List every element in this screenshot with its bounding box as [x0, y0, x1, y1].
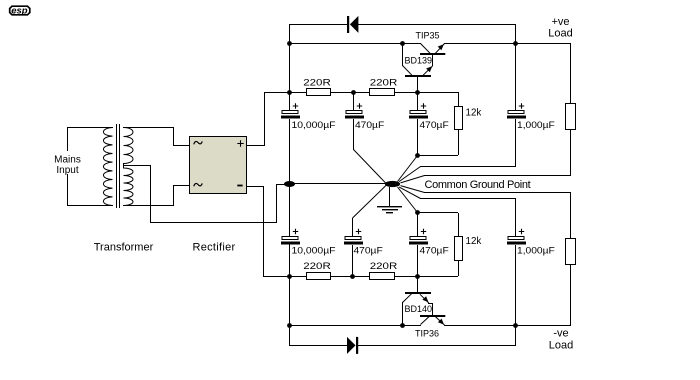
- resistor R8 -ve load: [566, 192, 576, 265]
- svg-text:220R: 220R: [303, 261, 331, 271]
- resistor R2 220R: [370, 89, 395, 96]
- wire junction155 to star: [398, 156, 418, 182]
- ground fan wire 3: [424, 192, 571, 193]
- node dot: [350, 274, 355, 279]
- transistor Q4 TIP36: [420, 315, 445, 325]
- node dot: [400, 323, 405, 328]
- capacitor C6 10,000uF: [281, 229, 300, 245]
- node dot: [287, 323, 292, 328]
- transformer T1 core: [116, 124, 117, 208]
- rectifier BR1: [190, 137, 247, 194]
- wire 220R line y=92: [264, 92, 307, 93]
- svg-text:TIP36: TIP36: [415, 329, 439, 339]
- svg-text:Input: Input: [56, 165, 78, 176]
- node dot: [513, 323, 518, 328]
- svg-text:220R: 220R: [370, 261, 398, 271]
- node dot: [287, 90, 292, 95]
- transistor Q2 BD139: [402, 43, 433, 92]
- svg-text:12k: 12k: [466, 108, 483, 119]
- resistor R5 12k: [417, 107, 463, 157]
- svg-text:Rectifier: Rectifier: [192, 242, 235, 254]
- diode D1: [347, 16, 358, 33]
- wire bottom diode rail y=345: [289, 345, 347, 346]
- node dot: [513, 41, 518, 46]
- wire rectifier + feed: [247, 145, 265, 146]
- -ve Load label: [549, 328, 573, 352]
- resistor R6 12k: [455, 237, 463, 277]
- transformer T1 secondary winding: [124, 128, 134, 206]
- wire +ve rail y=43: [289, 43, 421, 44]
- svg-text:220R: 220R: [370, 78, 398, 88]
- svg-text:TIP35: TIP35: [415, 31, 439, 41]
- wire star to junction212: [398, 187, 418, 213]
- resistor R1 220R: [307, 89, 331, 96]
- node dot: [415, 153, 420, 158]
- wire secondary bottom to rectifier: [123, 205, 174, 206]
- svg-text:470µF: 470µF: [355, 120, 385, 130]
- svg-text:10,000µF: 10,000µF: [292, 246, 337, 256]
- wire 220R line y=276: [263, 276, 307, 277]
- capacitor C5 1,000uF: [507, 43, 526, 166]
- diode D2: [347, 337, 358, 354]
- svg-text:10,000µF: 10,000µF: [292, 120, 337, 130]
- svg-text:1,000µF: 1,000µF: [517, 246, 555, 256]
- ESP logo: [10, 6, 30, 17]
- svg-text:470µF: 470µF: [420, 246, 450, 256]
- wire star to C7: [353, 185, 387, 218]
- wire secondary top to rectifier: [123, 127, 174, 128]
- wire junction212: [417, 212, 458, 213]
- svg-text:470µF: 470µF: [354, 246, 384, 256]
- node dot: [287, 41, 292, 46]
- svg-text:-ve: -ve: [553, 328, 568, 340]
- node dot: [351, 90, 356, 95]
- svg-text:Transformer: Transformer: [94, 242, 154, 254]
- resistor R7 +ve load: [566, 104, 576, 176]
- capacitor C8 470uF: [409, 213, 428, 276]
- svg-text:Load: Load: [548, 28, 572, 40]
- wire center tap to 0V node: [123, 165, 151, 166]
- ground fan wire 1: [420, 166, 516, 167]
- wire C2 to star: [354, 150, 387, 184]
- +ve Load label: [548, 16, 572, 40]
- node dot: [415, 274, 420, 279]
- ground symbol: [377, 187, 402, 213]
- svg-text:12k: 12k: [466, 236, 483, 247]
- transistor Q3 BD140: [402, 277, 433, 325]
- 0V node blob: [284, 181, 295, 187]
- resistor R4 220R: [370, 273, 395, 280]
- wire 0V node to star: [290, 183, 385, 184]
- transistor Q1 TIP35: [420, 44, 445, 67]
- capacitor C3 470uF: [409, 92, 428, 155]
- wire -ve rail y=325: [289, 325, 421, 326]
- node dot: [287, 274, 292, 279]
- wire top diode rail y=24: [289, 24, 347, 25]
- wire mains input loop: [67, 127, 113, 128]
- Mains Input label: [53, 151, 81, 176]
- capacitor C1 10,000uF: [281, 103, 300, 118]
- svg-text:Mains: Mains: [54, 155, 81, 166]
- wire rectifier - feed: [247, 186, 264, 187]
- wire main left bus x=289: [289, 24, 290, 110]
- svg-text:1,000µF: 1,000µF: [517, 120, 555, 130]
- svg-text:esp: esp: [11, 6, 28, 17]
- capacitor C2 470uF: [345, 92, 364, 150]
- svg-text:Load: Load: [549, 340, 573, 352]
- svg-text:BD140: BD140: [405, 304, 433, 314]
- svg-text:+ve: +ve: [551, 16, 569, 28]
- capacitor C9 1,000uF: [507, 198, 526, 325]
- svg-text:BD139: BD139: [405, 56, 433, 66]
- resistor R3 220R: [307, 273, 331, 280]
- transformer T1 primary winding: [103, 128, 112, 206]
- svg-text:470µF: 470µF: [420, 120, 450, 130]
- svg-text:220R: 220R: [303, 78, 331, 88]
- ground fan wire 4: [420, 198, 516, 199]
- capacitor C7 470uF: [344, 229, 363, 276]
- node dot: [415, 210, 420, 215]
- ground fan wire 2: [424, 175, 571, 176]
- node dot: [400, 41, 405, 46]
- svg-text:Common Ground Point: Common Ground Point: [425, 179, 531, 191]
- node dot: [415, 90, 420, 95]
- star ground point blob: [385, 181, 400, 187]
